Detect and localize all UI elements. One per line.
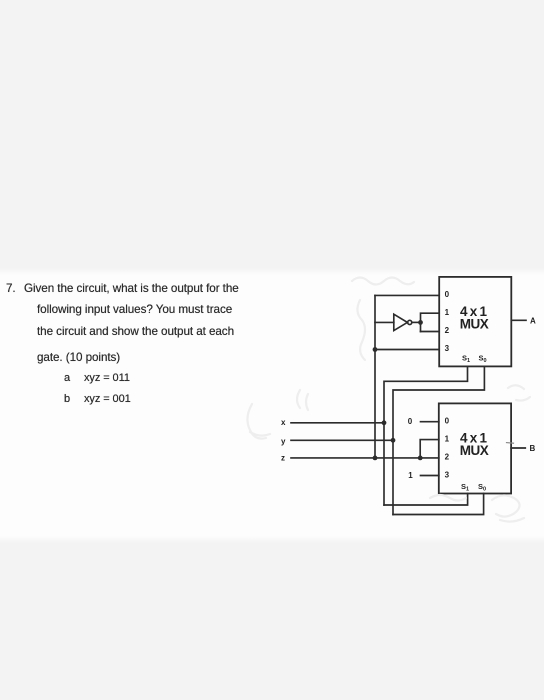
svg-text:S0: S0: [478, 482, 486, 493]
svg-text:0: 0: [445, 417, 450, 426]
svg-text:S0: S0: [479, 354, 487, 365]
svg-text:S1: S1: [462, 354, 470, 365]
wire input y: [291, 439, 393, 441]
wire U1 input 3: [375, 349, 439, 351]
svg-text:S1: S1: [461, 482, 469, 493]
svg-text:B: B: [530, 444, 536, 453]
svg-text:1: 1: [445, 435, 450, 444]
wire U2 input 1 bracket: [420, 440, 439, 458]
svg-text:3: 3: [445, 344, 450, 353]
inverter G1 bubble: [408, 320, 412, 324]
node junction z/trunk: [373, 456, 378, 461]
wire inverter input: [375, 321, 394, 323]
svg-text:1: 1: [445, 308, 450, 317]
svg-text:2: 2: [445, 326, 450, 335]
mux U1 (top 4x1 MUX) box: [439, 277, 511, 367]
node junction inverter-out: [418, 320, 423, 325]
svg-text:x: x: [281, 418, 286, 427]
mux U2 (bottom 4x1 MUX) box: [439, 403, 511, 493]
wire trunk z-net vertical (z to U1 inputs 0,3 and inverter): [374, 295, 376, 458]
svg-text:1: 1: [408, 471, 413, 480]
svg-text:3: 3: [445, 471, 450, 480]
svg-text:A: A: [530, 317, 536, 326]
inverter G1 triangle: [394, 314, 408, 330]
white scanned page band: [0, 275, 544, 536]
wire scan tick near B: [507, 442, 514, 445]
svg-text:MUX: MUX: [460, 443, 489, 458]
wire U2 S0 pin: [393, 494, 484, 515]
wire U1 input 0: [375, 294, 439, 296]
wire U2 input 0 constant: [421, 421, 439, 423]
wire U2 input 3 constant: [421, 475, 439, 477]
wire output B: [511, 447, 525, 449]
node junction y/S0: [391, 438, 396, 443]
svg-text:MUX: MUX: [460, 317, 489, 332]
node junction z/U2-bracket: [418, 456, 423, 461]
wire input z: [291, 457, 439, 459]
node junction x/S1: [382, 420, 387, 425]
wire U1 input 1 bracket: [421, 313, 440, 331]
wire U1 S0 to y-net: [393, 366, 484, 514]
wire U1 input 2: [421, 331, 440, 333]
node junction U1 input3/trunk: [373, 347, 378, 352]
wire U1 S1 to x-net: [384, 366, 468, 505]
svg-text:0: 0: [445, 290, 450, 299]
svg-text:0: 0: [408, 417, 413, 426]
wire output A: [511, 319, 526, 321]
svg-text:y: y: [281, 437, 286, 446]
wire input x: [291, 422, 384, 424]
wire inverter output: [412, 321, 421, 323]
svg-text:2: 2: [445, 453, 450, 462]
wire U2 S1 pin: [384, 494, 468, 506]
svg-text:z: z: [281, 454, 285, 463]
